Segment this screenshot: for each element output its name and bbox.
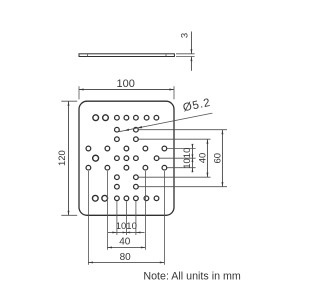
- svg-text:40: 40: [198, 153, 209, 164]
- svg-text:100: 100: [117, 78, 135, 90]
- svg-text:80: 80: [120, 252, 132, 263]
- svg-text:Note: All units in mm: Note: All units in mm: [143, 270, 241, 282]
- svg-text:40: 40: [119, 237, 131, 248]
- svg-text:60: 60: [213, 153, 224, 164]
- svg-text:Ø5.2: Ø5.2: [182, 97, 212, 115]
- svg-text:120: 120: [57, 150, 68, 166]
- svg-text:3: 3: [180, 33, 191, 38]
- svg-text:1010: 1010: [116, 221, 137, 232]
- svg-text:1010: 1010: [182, 148, 193, 169]
